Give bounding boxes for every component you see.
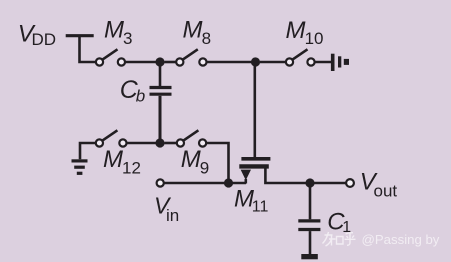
switch M12 <box>96 130 127 146</box>
zhi right part <box>337 237 344 245</box>
wire M10 to side ground <box>315 61 331 64</box>
terminal Vin <box>157 179 164 186</box>
wire M9 down to Vin node <box>206 143 228 183</box>
watermark zhihu <box>323 232 440 247</box>
svg-text:10: 10 <box>305 29 324 48</box>
wire M8 to node <box>207 61 256 64</box>
drain leg <box>265 168 310 183</box>
node top-left junction <box>155 57 164 66</box>
node top-right junction <box>251 57 260 66</box>
node bottom junction <box>155 138 164 147</box>
gate bar <box>241 157 270 161</box>
switch M8 <box>165 49 207 65</box>
transistor M11 <box>239 62 310 184</box>
svg-text:8: 8 <box>202 29 211 48</box>
zhi left radical <box>323 232 336 246</box>
channel bar <box>239 164 268 168</box>
svg-text:M: M <box>286 17 306 44</box>
svg-text:b: b <box>136 87 145 106</box>
node Vin junction <box>224 178 233 187</box>
label Cb <box>120 76 146 105</box>
label Vout <box>360 169 398 201</box>
wire VDD down-elbow to M3 <box>80 37 97 62</box>
label C1 <box>327 209 351 236</box>
svg-text:@Passing by: @Passing by <box>362 232 440 247</box>
wire M3 to node <box>125 61 160 64</box>
capacitor C1 <box>298 183 320 254</box>
wire to Vout terminal <box>310 182 346 185</box>
gate wire from top node <box>254 62 257 157</box>
svg-text:M: M <box>183 17 203 44</box>
svg-text:9: 9 <box>200 159 209 178</box>
wire Vin to M11 source <box>164 182 246 185</box>
label M3 <box>104 17 132 48</box>
label M8 <box>183 17 212 48</box>
terminal Vout <box>346 179 354 187</box>
svg-text:in: in <box>166 206 179 225</box>
switch M3 <box>96 49 125 65</box>
hu <box>345 233 356 246</box>
svg-text:11: 11 <box>252 199 269 216</box>
svg-text:out: out <box>374 181 398 200</box>
ground (sideways) top right <box>331 54 349 71</box>
svg-text:12: 12 <box>122 159 141 178</box>
svg-text:M: M <box>104 17 124 44</box>
label VDD <box>18 21 56 49</box>
switch M10 <box>260 49 315 65</box>
switch M9 <box>165 130 207 146</box>
svg-text:M: M <box>181 146 201 173</box>
label M11 <box>234 186 269 216</box>
ground C1 <box>301 254 318 259</box>
svg-text:3: 3 <box>123 29 132 48</box>
svg-text:M: M <box>103 146 123 173</box>
capacitor Cb <box>150 62 172 143</box>
wire M12 to node <box>127 142 161 145</box>
ground bottom left <box>72 143 97 173</box>
label M10 <box>286 17 324 48</box>
svg-text:DD: DD <box>32 30 57 49</box>
label M9 <box>181 146 209 178</box>
node Vout junction <box>305 178 314 187</box>
source leg with arrow <box>241 170 251 181</box>
power rail VDD bar <box>66 34 94 37</box>
label M12 <box>103 146 141 178</box>
label Vin <box>154 193 179 225</box>
